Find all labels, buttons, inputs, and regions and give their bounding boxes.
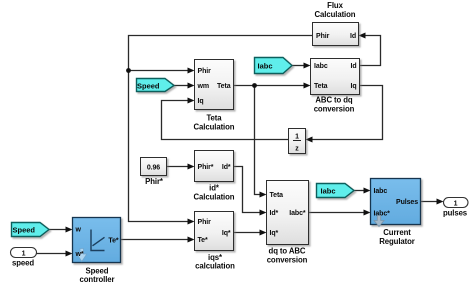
- svg-text:1: 1: [295, 134, 299, 141]
- svg-text:Iabc*: Iabc*: [374, 211, 391, 218]
- svg-text:speed: speed: [12, 259, 34, 268]
- svg-text:Speed: Speed: [137, 82, 160, 91]
- svg-text:Teta: Teta: [314, 83, 328, 90]
- svg-text:Calculation: Calculation: [194, 193, 235, 202]
- svg-text:Id: Id: [350, 33, 356, 40]
- svg-text:w*: w*: [75, 251, 84, 258]
- svg-text:conversion: conversion: [314, 105, 355, 114]
- svg-text:Te*: Te*: [198, 237, 208, 244]
- svg-text:Iq*: Iq*: [270, 230, 279, 237]
- svg-text:Teta: Teta: [270, 192, 284, 199]
- svg-text:Iabc: Iabc: [374, 188, 388, 195]
- svg-text:Iabc: Iabc: [321, 187, 336, 196]
- svg-text:Iabc: Iabc: [314, 63, 328, 70]
- svg-text:Teta: Teta: [206, 114, 222, 123]
- svg-text:Speed: Speed: [13, 226, 36, 235]
- svg-text:id*: id*: [209, 184, 220, 193]
- svg-text:Phir: Phir: [198, 68, 212, 75]
- svg-text:Pulses: Pulses: [396, 199, 418, 206]
- svg-text:Calculation: Calculation: [315, 10, 356, 19]
- svg-text:controller: controller: [80, 275, 115, 284]
- svg-text:Iq*: Iq*: [222, 230, 231, 237]
- svg-text:Iq: Iq: [198, 98, 204, 105]
- svg-text:w: w: [75, 227, 82, 234]
- svg-text:Phir*: Phir*: [145, 177, 164, 186]
- svg-text:Phir: Phir: [198, 219, 212, 226]
- svg-text:Te*: Te*: [108, 238, 118, 245]
- svg-text:1: 1: [22, 251, 26, 258]
- svg-text:ABC to dq: ABC to dq: [315, 96, 353, 105]
- svg-text:Teta: Teta: [217, 83, 231, 90]
- svg-text:Id*: Id*: [222, 164, 231, 171]
- svg-text:Iabc*: Iabc*: [289, 210, 306, 217]
- svg-text:dq to ABC: dq to ABC: [269, 247, 306, 256]
- svg-text:calculation: calculation: [195, 262, 235, 271]
- svg-text:Phir: Phir: [316, 33, 330, 40]
- svg-text:Regulator: Regulator: [379, 237, 415, 246]
- svg-text:wm: wm: [197, 83, 209, 90]
- svg-text:Calculation: Calculation: [194, 123, 235, 132]
- svg-text:Phir*: Phir*: [198, 164, 214, 171]
- svg-text:1: 1: [454, 201, 458, 208]
- svg-text:conversion: conversion: [267, 256, 308, 265]
- svg-text:pulses: pulses: [443, 209, 468, 218]
- svg-text:Iabc: Iabc: [258, 62, 273, 71]
- svg-text:Id: Id: [350, 63, 356, 70]
- svg-text:Id*: Id*: [270, 210, 279, 217]
- svg-text:Current: Current: [383, 228, 411, 237]
- svg-text:Iq: Iq: [350, 83, 356, 90]
- svg-text:z: z: [295, 146, 299, 153]
- svg-text:0.96: 0.96: [147, 165, 160, 172]
- svg-text:Flux: Flux: [327, 1, 343, 10]
